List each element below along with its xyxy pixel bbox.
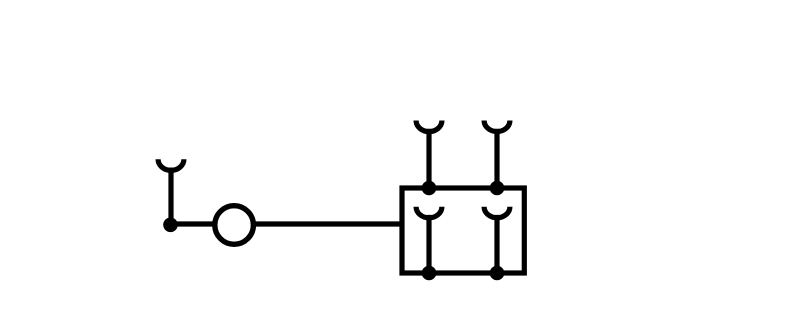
wire stem of clamp terminal 1 (168, 168, 173, 226)
wire stem of clamp terminal 5 (494, 215, 499, 273)
junction node bottom-right of block (490, 266, 505, 281)
clamp terminal 4 (inner left) arc (416, 207, 442, 218)
terminal block body (bridge box) (402, 188, 524, 273)
junction node top-left of block (422, 181, 437, 196)
clamp terminal 5 (inner right) arc (484, 207, 510, 218)
clamp terminal 2 (top left) arc (416, 121, 442, 132)
junction node top-right of block (490, 181, 505, 196)
wire stem of clamp terminal 3 (494, 129, 499, 188)
clamp terminal 1 (left feed) arc (158, 159, 184, 170)
component circle (disconnect element) (215, 206, 254, 245)
wire from junction to component circle (171, 221, 217, 226)
junction node at clamp terminal 1 (163, 218, 178, 233)
clamp terminal 3 (top right) arc (484, 121, 510, 132)
junction node bottom-left of block (422, 266, 437, 281)
wire stem of clamp terminal 2 (426, 129, 431, 188)
wire from component circle to terminal block body (252, 221, 404, 226)
wire stem of clamp terminal 4 (426, 215, 431, 273)
